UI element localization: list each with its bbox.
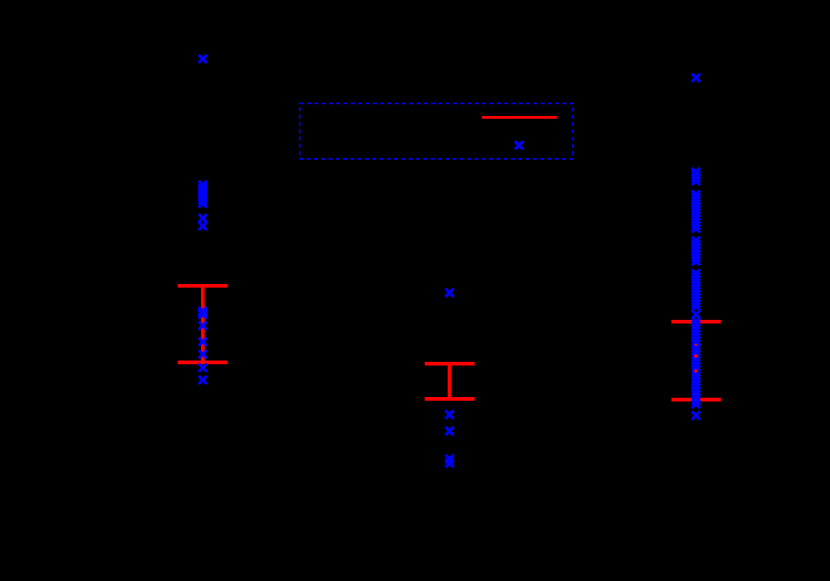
error bar group 2 xyxy=(425,364,475,399)
error bar group 1 xyxy=(178,286,228,363)
legend frame xyxy=(300,103,573,158)
group 3 markers xyxy=(692,74,700,420)
legend red line sample xyxy=(482,116,557,119)
legend blue x sample xyxy=(515,141,523,149)
error bar group 3 xyxy=(671,322,720,400)
group 1 markers xyxy=(199,55,207,384)
group 2 markers xyxy=(445,289,453,468)
